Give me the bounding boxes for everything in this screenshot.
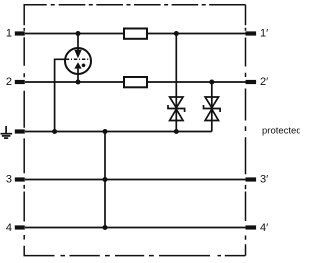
svg-text:2: 2 [6,76,12,88]
svg-text:1: 1 [6,28,12,40]
svg-text:3′: 3′ [260,174,268,186]
svg-text:4: 4 [6,222,12,234]
svg-text:1′: 1′ [260,28,268,40]
svg-text:4′: 4′ [260,222,268,234]
svg-text:3: 3 [6,174,12,186]
svg-text:protected: protected [262,125,300,136]
svg-text:2′: 2′ [260,76,268,88]
